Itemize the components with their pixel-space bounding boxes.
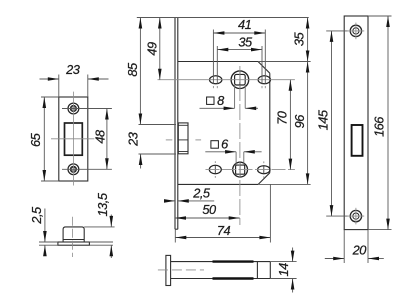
faceplate bottom extension line (174, 229, 176, 242)
dim 35 extension lines (216, 46, 218, 84)
dim 96 line + arrows (307, 62, 309, 185)
svg-text:70: 70 (274, 110, 289, 125)
hub vertical centerline (239, 66, 241, 225)
strike plate cutout (65, 123, 83, 155)
svg-text:145: 145 (315, 109, 330, 130)
dim 65 extension lines (41, 96, 59, 98)
faceplate top screw hole (350, 25, 361, 36)
top extension line (137, 17, 309, 19)
dim 48 extension lines through screw centers (62, 108, 112, 110)
dim 85 line + arrows (139, 18, 141, 125)
dim 48 dimension line + arrows (106, 109, 108, 170)
dim 14 extension lines (270, 261, 296, 263)
mounting slot row2 right (258, 166, 270, 174)
svg-text:23: 23 (65, 62, 80, 77)
svg-text:2,5: 2,5 (29, 206, 44, 225)
case right extension line (269, 184, 271, 242)
dim 20 line + arrows (325, 258, 344, 260)
dim 41 extension lines (212, 30, 214, 84)
dim 166 extension lines (368, 15, 392, 17)
latch detail extension lines (39, 241, 58, 243)
faceplate front outline (344, 16, 368, 230)
lock faceplate side view (174, 18, 176, 230)
latch bolt cap (63, 227, 84, 242)
side view flange (166, 255, 171, 285)
square symbol 6 (211, 141, 219, 149)
strike plate horizontal centerline (51, 138, 94, 140)
svg-text:35: 35 (238, 35, 253, 50)
mounting slot row1 right (258, 76, 270, 84)
svg-text:48: 48 (93, 129, 108, 144)
hub 2 vertical center segment (239, 162, 241, 177)
svg-text:35: 35 (291, 32, 306, 47)
dim 145 extension lines (326, 30, 347, 32)
side view thick wall segments (213, 260, 254, 262)
dim 35 right line + arrows (307, 18, 309, 62)
svg-text:85: 85 (125, 62, 140, 77)
hub 1 square hole 8mm (235, 74, 246, 85)
dim 65 dimension line + arrows (43, 97, 45, 181)
dim 2,5 line + arrows (44, 209, 46, 243)
dim 13,5 line + arrows (110, 215, 112, 227)
dim 49 line + arrows (159, 18, 161, 80)
strike plate vertical centerline (72, 92, 74, 186)
dim 23 dimension line + arrows (40, 78, 59, 80)
dim 23 latch chain line + arrow (140, 154, 142, 169)
slot row2 center marks (214, 165, 216, 174)
svg-text:13,5: 13,5 (95, 192, 110, 216)
dim square-8 lines + arrows (200, 107, 235, 109)
dim 35 line + arrows (217, 49, 262, 51)
svg-text:65: 65 (28, 132, 43, 147)
dim 2,5 faceplate leader + arrows (166, 200, 176, 202)
hub row2 centerline (206, 169, 295, 171)
svg-text:49: 49 (145, 42, 160, 56)
latch detail centerline (71, 217, 73, 257)
case bottom extension to right dims (258, 183, 310, 185)
hub 2 square hole extension lines (235, 152, 237, 165)
svg-text:14: 14 (276, 263, 291, 277)
mounting slot row2 left (209, 165, 221, 173)
strike plate top screw hole (68, 103, 79, 114)
svg-text:50: 50 (202, 202, 217, 217)
latch bolt front (178, 123, 188, 154)
hub row1 centerline (158, 79, 295, 81)
latch extension lines (139, 124, 177, 126)
side view body (171, 261, 271, 263)
dim 41 line + arrows (213, 32, 265, 34)
mounting slot row1 left (210, 76, 222, 84)
dim 20 extension lines (343, 230, 345, 263)
hub 1 follower circle (231, 71, 249, 89)
hub 2 square hole 6mm (236, 165, 245, 174)
faceplate latch cutout (352, 125, 363, 156)
dim 14 line + arrows (292, 248, 294, 262)
dim 74 line + arrows (175, 237, 270, 239)
dim 145 line + arrows (331, 31, 333, 216)
latch centerline dashes (166, 139, 173, 141)
dim square-6 lines + arrows (205, 151, 236, 153)
latch bolt flange (58, 242, 90, 245)
svg-text:166: 166 (372, 116, 387, 137)
svg-text:20: 20 (352, 242, 368, 257)
lock case outline (178, 61, 258, 63)
faceplate bottom screw hole (350, 210, 361, 221)
dim 50 line + arrows (175, 217, 240, 219)
svg-text:74: 74 (217, 223, 231, 238)
square symbol 8 (207, 97, 214, 104)
dim 166 line + arrows (387, 16, 389, 230)
dim 70 line + arrows (289, 80, 291, 170)
strike plate bottom screw hole (68, 164, 79, 175)
svg-text:2,5: 2,5 (192, 185, 211, 200)
hub 2 circle (233, 162, 248, 177)
hub 1 vertical center segment (239, 72, 241, 89)
dim 23 extension lines (58, 75, 60, 98)
slot row1 center mark dashes below (212, 86, 214, 88)
case top extension to right dims (258, 61, 311, 63)
strike plate outline (59, 97, 88, 181)
svg-text:41: 41 (238, 17, 252, 32)
svg-text:23: 23 (126, 132, 141, 147)
hub 1 square hole extension lines (234, 85, 236, 108)
side view centerline (158, 269, 204, 271)
svg-text:96: 96 (292, 114, 307, 129)
